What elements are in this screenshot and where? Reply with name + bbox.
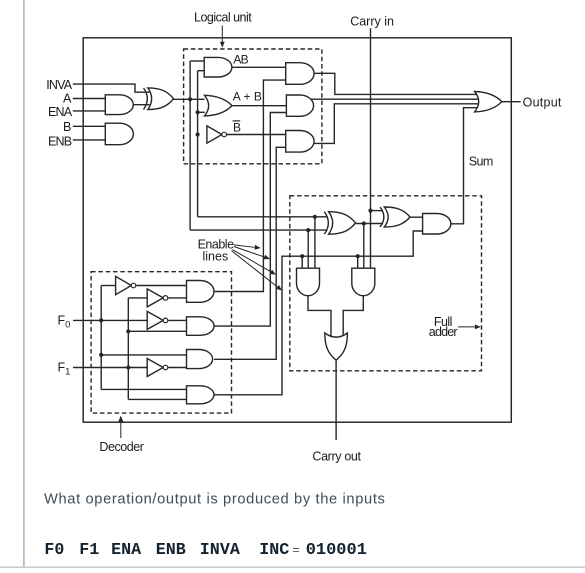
svg-text:Output: Output	[523, 96, 562, 110]
svg-text:INVA: INVA	[46, 78, 73, 92]
svg-text:ENB: ENB	[48, 134, 72, 148]
svg-text:adder: adder	[429, 325, 458, 339]
svg-text:A: A	[63, 92, 72, 106]
svg-text:ENA: ENA	[48, 105, 73, 119]
svg-text:AB: AB	[233, 52, 248, 66]
svg-text:F0: F0	[58, 313, 71, 330]
svg-text:A + B: A + B	[233, 89, 262, 103]
svg-text:lines: lines	[203, 250, 229, 264]
svg-text:B: B	[63, 120, 71, 134]
svg-text:Carry in: Carry in	[350, 14, 394, 28]
svg-text:F0F1ENAENBINVAINC=010001: F0F1ENAENBINVAINC=010001	[44, 541, 367, 560]
svg-text:Sum: Sum	[469, 155, 493, 169]
svg-text:B: B	[233, 121, 241, 135]
svg-text:Logical unit: Logical unit	[194, 11, 252, 25]
svg-text:What operation/output is produ: What operation/output is produced by the…	[44, 491, 386, 507]
svg-text:F1: F1	[58, 361, 71, 378]
svg-text:Decoder: Decoder	[99, 440, 143, 454]
svg-text:Carry out: Carry out	[312, 450, 361, 464]
